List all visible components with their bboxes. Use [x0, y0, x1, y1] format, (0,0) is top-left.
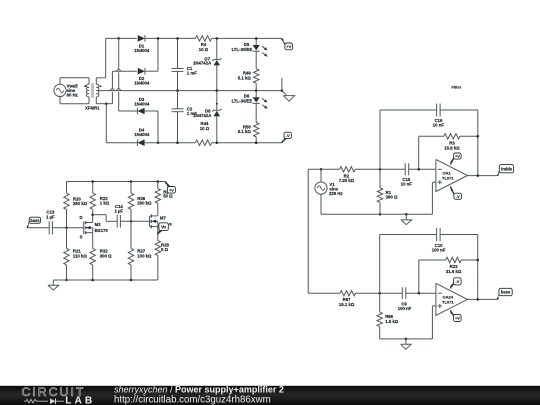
svg-text:1N4742A: 1N4742A	[193, 113, 211, 118]
svg-text:5.1 kΩ: 5.1 kΩ	[238, 75, 252, 80]
svg-text:110 kΩ: 110 kΩ	[73, 253, 88, 258]
opamp OA24 V- stub	[451, 284, 454, 288]
svg-text:290 kΩ: 290 kΩ	[137, 201, 152, 206]
wire D3 anode drop	[145, 111, 158, 143]
transformer XFMR1	[84, 78, 101, 111]
resistor R21 110k	[64, 228, 88, 280]
treble feedback top wire	[380, 110, 478, 176]
flag +V OA1	[451, 153, 461, 163]
svg-text:15.1 kΩ: 15.1 kΩ	[339, 302, 355, 307]
wire drain step to C14	[93, 215, 118, 222]
led D5 LTL-30/EE	[232, 38, 268, 68]
flag bass output	[497, 288, 512, 299]
svg-text:390 Ω: 390 Ω	[386, 195, 398, 200]
capacitor C9 100nF	[398, 287, 412, 311]
ground bass	[401, 338, 411, 350]
svg-text:1N4004: 1N4004	[134, 48, 150, 53]
wire V1 bottom	[320, 194, 322, 214]
capacitor C10 100nF	[432, 228, 446, 253]
footer bar	[0, 386, 540, 405]
wire OA1 plus input	[432, 182, 436, 214]
opamp OA24 V+ stub	[451, 310, 454, 314]
bass feedback top wire	[380, 235, 478, 300]
svg-text:S: S	[80, 234, 83, 239]
resistor R28 8	[155, 240, 169, 280]
text Filter	[452, 84, 462, 89]
svg-text:1N4742A: 1N4742A	[193, 61, 211, 66]
node R23 output	[476, 259, 479, 262]
svg-text:M3: M3	[95, 222, 102, 227]
flag -V OA1	[451, 189, 461, 200]
svg-text:1 µF: 1 µF	[114, 209, 123, 214]
node secondary bottom junction	[105, 102, 108, 105]
wire to bottom rail	[105, 104, 107, 143]
logo LAB	[65, 396, 95, 405]
bottom rail	[106, 142, 282, 144]
node R21 bottom	[65, 279, 68, 282]
node R49 bottom	[255, 89, 258, 92]
svg-text:bass: bass	[501, 290, 511, 295]
svg-text:7.25 kΩ: 7.25 kΩ	[339, 178, 355, 183]
resistor R2 7.25k	[339, 167, 356, 184]
resistor R27 100k	[128, 221, 152, 280]
ground amp	[48, 280, 59, 290]
svg-text:Filter: Filter	[452, 84, 462, 89]
svg-text:bass: bass	[30, 218, 40, 223]
resistor R23 31.6k	[419, 257, 478, 293]
svg-text:8 Ω: 8 Ω	[161, 247, 169, 252]
mosfet M3 BS170	[79, 215, 108, 249]
bass output wire	[468, 298, 498, 300]
amp top rail	[67, 181, 166, 183]
zener D8 1N4742A	[193, 91, 221, 143]
svg-text:/9: /9	[169, 223, 172, 227]
svg-text:+V: +V	[286, 44, 291, 49]
svg-text:XFMR1: XFMR1	[85, 105, 100, 110]
bass bottom rail	[380, 338, 433, 340]
svg-text:http://circuitlab.com/c3guz4rh: http://circuitlab.com/c3guz4rh86xwm	[114, 394, 271, 405]
svg-text:1 kΩ: 1 kΩ	[100, 200, 110, 205]
node R50 bottom	[255, 141, 258, 144]
resistor R66 1.5k	[377, 293, 399, 339]
treble output wire	[468, 175, 498, 177]
wire bass to C13	[27, 227, 49, 229]
flag Vo	[158, 223, 172, 235]
svg-text:TL071: TL071	[442, 299, 454, 304]
node C1 top	[176, 37, 179, 40]
node C2 bottom	[176, 141, 179, 144]
node V1 top	[320, 168, 323, 171]
flag bass input	[27, 217, 41, 228]
wire C14 to M7 gate	[120, 220, 149, 222]
wire OA24 plus input	[432, 306, 436, 339]
svg-text:sherryxychen / Power supply+am: sherryxychen / Power supply+amplifier 2	[114, 384, 284, 394]
flag treble	[498, 165, 514, 176]
op-amp OA24 TL071	[436, 283, 468, 315]
flag -V supply	[282, 132, 292, 143]
logo resistor-diode squiggle	[24, 398, 64, 404]
svg-text:-V: -V	[456, 194, 460, 199]
opamp OA1 V+ stub	[451, 159, 454, 165]
capacitor C14 1uF	[114, 204, 123, 228]
resistor R24 50 partially hidden	[155, 182, 173, 204]
flag +V supply	[282, 38, 293, 49]
wire V1 top	[320, 169, 322, 182]
svg-text:60 Hz: 60 Hz	[67, 92, 78, 97]
wire source bottom	[60, 97, 89, 104]
footer text line1	[114, 384, 284, 394]
op-amp OA1 TL071	[436, 159, 468, 191]
node M3 drain	[91, 213, 94, 216]
top rail	[106, 37, 282, 39]
svg-text:1 mF: 1 mF	[187, 71, 197, 76]
node R27 bottom	[130, 279, 133, 282]
svg-text:50 Ω: 50 Ω	[163, 193, 173, 198]
node C13 R2021	[65, 227, 68, 230]
node D1-D2 cathode	[157, 37, 160, 40]
svg-text:-V: -V	[286, 133, 290, 138]
svg-text:1N4004: 1N4004	[134, 81, 150, 86]
wire hop over D2 row	[116, 69, 121, 71]
capacitor C15 10nF	[401, 163, 413, 186]
node R26 top	[130, 180, 133, 183]
svg-text:100 nF: 100 nF	[398, 306, 412, 311]
wire secondary top to rail	[96, 38, 105, 77]
node R1 bottom	[379, 213, 382, 216]
flag +V OA24	[451, 312, 461, 321]
node R32 bottom	[91, 279, 94, 282]
led D6 LTL-30/EE	[232, 91, 268, 123]
resistor R49 5.1k	[238, 69, 259, 91]
node R2 R1 junction	[379, 168, 382, 171]
wire to bass drop	[307, 169, 309, 293]
svg-text:+V: +V	[169, 187, 174, 192]
svg-text:10 nF: 10 nF	[401, 182, 413, 187]
capacitor C16 10nF	[433, 104, 445, 128]
node treble output	[477, 174, 480, 177]
svg-text:M7: M7	[160, 216, 167, 221]
wire D2 anode branch	[106, 71, 137, 104]
node R23 input	[418, 292, 421, 295]
svg-text:31.6 kΩ: 31.6 kΩ	[446, 269, 462, 274]
wire center tap mid rail	[99, 90, 282, 92]
resistor R50 5.1k	[238, 123, 259, 143]
svg-text:300 Ω: 300 Ω	[100, 253, 112, 258]
node C14 R2627	[130, 220, 133, 223]
resistor R1 390	[377, 169, 398, 214]
svg-text:5.1 kΩ: 5.1 kΩ	[238, 129, 252, 134]
svg-text:10 nF: 10 nF	[433, 123, 445, 128]
svg-text:+V: +V	[455, 316, 460, 321]
svg-text:1N4004: 1N4004	[134, 102, 150, 107]
footer text line2	[114, 394, 271, 405]
diode D3 1N4004	[134, 97, 150, 114]
svg-text:BS170: BS170	[95, 228, 109, 233]
node R67 R66 junction	[378, 292, 381, 295]
node D7 bottom	[216, 89, 219, 92]
ground supply	[281, 78, 295, 101]
diode D1 1N4004	[134, 35, 150, 53]
capacitor C13 1uF	[46, 210, 55, 235]
diode D2 1N4004	[134, 68, 150, 86]
svg-text:1N4004: 1N4004	[134, 132, 150, 137]
flag -V OA24	[451, 278, 461, 287]
resistor R67 15.1k	[339, 291, 356, 307]
ground treble	[401, 213, 412, 225]
logo CIRCUIT	[22, 385, 86, 399]
resistor R44 10	[195, 121, 211, 145]
zener D7 1N4742A	[193, 38, 221, 90]
node top rail secondary	[117, 37, 120, 40]
resistor R20 290k	[64, 182, 88, 228]
node D7 top	[216, 37, 219, 40]
treble bottom rail	[321, 213, 432, 215]
resistor R32 300	[90, 248, 112, 280]
diode D4 1N4004	[134, 127, 150, 146]
svg-text:10 Ω: 10 Ω	[199, 47, 209, 52]
wire hop D2 branch over mid rail	[110, 88, 115, 90]
svg-text:treble: treble	[501, 166, 513, 171]
node R3 output	[477, 135, 480, 138]
voltage source V1	[315, 182, 343, 196]
svg-text:229 Hz: 229 Hz	[329, 191, 343, 196]
svg-text:100 nF: 100 nF	[432, 248, 446, 253]
treble input row	[308, 168, 436, 170]
svg-text:-V: -V	[455, 279, 459, 284]
wire hop over mid rail	[116, 88, 121, 90]
svg-text:+V: +V	[455, 154, 460, 159]
resistor R26 290k	[128, 182, 152, 222]
mosfet M7	[149, 203, 166, 240]
svg-text:290 kΩ: 290 kΩ	[73, 201, 88, 206]
svg-text:100 kΩ: 100 kΩ	[137, 253, 152, 258]
node R24 top	[157, 180, 160, 183]
svg-text:LTL-30/EE: LTL-30/EE	[232, 47, 253, 52]
svg-text:D: D	[79, 215, 82, 220]
svg-text:1 µF: 1 µF	[46, 214, 55, 219]
node D5 top	[255, 37, 258, 40]
flag +V amp	[166, 182, 176, 194]
capacitor C2 1 mF	[172, 91, 198, 143]
resistor R4 10	[195, 36, 211, 52]
resistor R3 15.8k	[419, 134, 478, 170]
voltage source Vwall	[54, 83, 78, 97]
svg-text:10 Ω: 10 Ω	[200, 126, 210, 131]
node R3 input	[417, 168, 420, 171]
wire secondary top to D3	[119, 38, 137, 111]
wire C13 to gate	[52, 227, 83, 229]
svg-text:15.8 kΩ: 15.8 kΩ	[444, 145, 460, 150]
svg-text:LAB: LAB	[65, 396, 95, 405]
svg-text:Vo: Vo	[161, 224, 166, 229]
svg-text:1.5 kΩ: 1.5 kΩ	[385, 319, 399, 324]
opamp OA1 V- stub	[451, 186, 454, 193]
bass input row	[308, 292, 436, 294]
node D3-D4 anode	[157, 141, 160, 144]
resistor R22 1k	[90, 182, 110, 215]
wire secondary bottom	[96, 103, 106, 105]
node D8 bottom	[216, 141, 219, 144]
node R22 top	[91, 180, 94, 183]
wire D2 cathode riser	[145, 38, 158, 71]
svg-text:LTL-30/EE: LTL-30/EE	[232, 99, 253, 104]
svg-text:TL071: TL071	[442, 175, 454, 180]
wire source top	[60, 78, 89, 85]
amp bottom rail	[53, 279, 158, 281]
capacitor C1 1 mF	[172, 38, 198, 90]
node C1 bottom	[176, 89, 179, 92]
node bass output	[476, 298, 479, 301]
